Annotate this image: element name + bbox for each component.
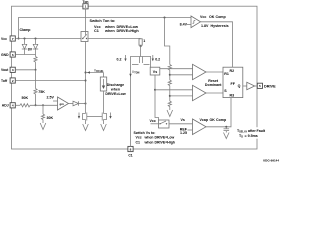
svg-text:VccwhenDRIVE=Low: VccwhenDRIVE=Low	[136, 136, 175, 140]
svg-text:afterFault: afterFault	[248, 129, 266, 133]
svg-text:TON: TON	[134, 72, 139, 75]
svg-text:3: 3	[12, 68, 14, 72]
svg-text:Vs: Vs	[181, 118, 185, 122]
svg-text:C1: C1	[128, 154, 132, 158]
svg-text:= 9.5ms: = 9.5ms	[245, 134, 258, 138]
svg-text:0.2: 0.2	[155, 58, 160, 62]
svg-text:R1: R1	[224, 72, 229, 76]
svg-text:R2: R2	[230, 69, 235, 73]
svg-text:UDG-99144: UDG-99144	[263, 159, 279, 163]
svg-text:1: 1	[143, 39, 145, 43]
svg-text:1.8VHysteresis: 1.8VHysteresis	[201, 24, 229, 28]
svg-text:Ton: Ton	[83, 0, 89, 4]
svg-text:5: 5	[259, 84, 261, 88]
svg-text:when: when	[110, 88, 120, 92]
svg-text:50K: 50K	[22, 96, 29, 100]
svg-text:R3: R3	[230, 94, 235, 98]
svg-text:Switch Vs to:: Switch Vs to:	[134, 131, 156, 135]
svg-text:Switch Ton to:: Switch Ton to:	[90, 19, 116, 23]
svg-text:ADJ: ADJ	[2, 104, 9, 108]
svg-text:DRIVE: DRIVE	[264, 85, 276, 89]
svg-text:gm: gm	[60, 102, 65, 106]
svg-text:Vs: Vs	[153, 70, 157, 74]
svg-text:GND: GND	[1, 53, 9, 57]
svg-text:6: 6	[12, 53, 14, 57]
svg-text:DRIVE=Low: DRIVE=Low	[105, 92, 125, 96]
svg-text:Dominant: Dominant	[205, 83, 222, 87]
svg-text:Discharge: Discharge	[107, 83, 124, 87]
svg-text:7: 7	[12, 37, 14, 41]
svg-text:2: 2	[12, 79, 14, 83]
svg-text:8V: 8V	[28, 48, 33, 52]
svg-text:2.5V: 2.5V	[47, 95, 55, 99]
svg-text:75K: 75K	[38, 90, 45, 94]
svg-text:Vout: Vout	[1, 68, 9, 72]
svg-text:1: 1	[85, 5, 87, 9]
svg-text:VccOKComp: VccOKComp	[200, 15, 226, 19]
svg-text:Reset: Reset	[208, 79, 219, 83]
svg-text:Q: Q	[238, 84, 241, 88]
svg-text:8.4V: 8.4V	[180, 23, 188, 27]
svg-text:8: 8	[130, 147, 132, 151]
svg-text:0.2: 0.2	[117, 58, 122, 62]
svg-text:D: D	[241, 136, 243, 139]
svg-text:C1whenDRIVE=High: C1whenDRIVE=High	[136, 140, 176, 144]
svg-text:DCHG: DCHG	[96, 70, 103, 73]
svg-text:1.25: 1.25	[180, 131, 187, 135]
svg-text:VcapOKComp: VcapOKComp	[200, 118, 227, 122]
svg-text:Vcc: Vcc	[1, 37, 7, 41]
svg-text:Clamp: Clamp	[20, 28, 32, 32]
svg-text:Vcc: Vcc	[150, 119, 156, 123]
svg-text:C1whenDRIVE=High: C1whenDRIVE=High	[94, 29, 139, 33]
svg-text:4: 4	[12, 104, 14, 108]
svg-text:30K: 30K	[47, 116, 54, 120]
svg-text:Toff: Toff	[1, 79, 8, 83]
